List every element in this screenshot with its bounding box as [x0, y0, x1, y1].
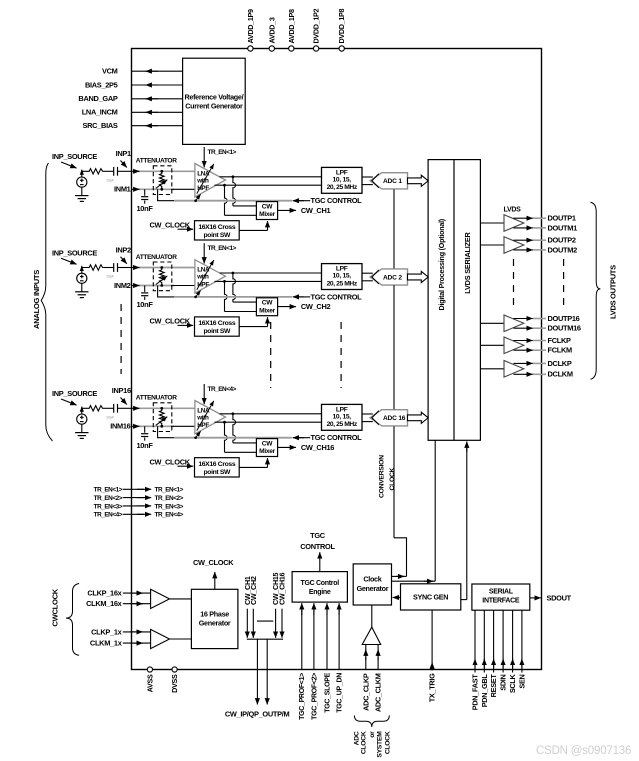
pin CLKM_16x: [86, 599, 150, 608]
svg-text:TR_EN<3>: TR_EN<3>: [94, 503, 123, 510]
svg-text:HPF: HPF: [197, 422, 209, 429]
svg-text:CLOCK: CLOCK: [384, 731, 391, 754]
svg-text:CLKM_16x: CLKM_16x: [86, 599, 123, 608]
svg-text:BIAS_2P5: BIAS_2P5: [85, 80, 118, 89]
svg-text:BAND_GAP: BAND_GAP: [78, 94, 117, 103]
wire BAND_GAP: [78, 94, 182, 103]
pin CLKP_1x: [91, 627, 150, 636]
svg-text:TR_EN<2>: TR_EN<2>: [94, 495, 123, 502]
wire TGC control ch1: [174, 194, 362, 205]
svg-text:LVDS: LVDS: [504, 207, 522, 214]
bus arrow ADC 16 to digital processing: [408, 412, 429, 423]
pin SDOUT: [530, 593, 572, 602]
brace LVDS OUTPUTS: [591, 202, 618, 379]
svg-text:TGC_PROF<2>: TGC_PROF<2>: [311, 673, 318, 720]
svg-text:LPF: LPF: [336, 169, 348, 176]
block 16 Phase Generator: [191, 589, 238, 648]
svg-text:INP_SOURCE: INP_SOURCE: [52, 389, 97, 398]
svg-text:CW_CLOCK: CW_CLOCK: [193, 558, 234, 567]
svg-text:10nF: 10nF: [137, 204, 154, 213]
wire cross point to mixer ch16: [239, 458, 267, 467]
svg-text:Clock: Clock: [363, 575, 381, 584]
block Digital Processing (Optional): [428, 160, 480, 441]
svg-text:Reference Voltage/: Reference Voltage/: [185, 93, 244, 102]
svg-text:SYNC GEN: SYNC GEN: [413, 593, 448, 602]
svg-text:CLOCK: CLOCK: [361, 731, 368, 754]
pin TGC_PROF<1>: [299, 603, 306, 720]
svg-text:AVDD_3: AVDD_3: [267, 17, 276, 43]
svg-text:CW_CH2: CW_CH2: [301, 302, 331, 311]
svg-text:DCLKM: DCLKM: [548, 370, 573, 379]
wire CW_IP/QP_OUTP/M outputs: [225, 639, 290, 718]
wire LPF to ADC 1: [362, 177, 373, 185]
resistor source ch16: [82, 406, 104, 411]
op-amp LNA ch2: [195, 260, 226, 293]
wire cross point to mixer ch2: [239, 317, 267, 326]
power pin AVDD_1P9: [246, 9, 255, 51]
pin SDIN: [499, 610, 508, 691]
ellipsis dash CW bus: [257, 620, 273, 622]
LVDS buffer DOUTP1/DOUTM1: [480, 214, 577, 233]
pin TR_EN<3>: [94, 503, 184, 510]
wire CW_CH1 output: [278, 206, 331, 215]
wire CW_CH2 output: [278, 302, 331, 311]
wire CW_CH16 to CW bus: [278, 572, 287, 637]
svg-text:INTERFACE: INTERFACE: [482, 598, 520, 605]
svg-text:CW_CH1: CW_CH1: [301, 206, 331, 215]
filter LPF ch1: [322, 167, 363, 193]
wire LNA outputs to LPF ch2: [215, 272, 322, 283]
svg-text:SCLK: SCLK: [508, 673, 517, 693]
mixer CW Mixer ch16: [256, 439, 277, 457]
svg-text:SYSTEM: SYSTEM: [377, 731, 384, 758]
wire TGC control ch16: [174, 431, 362, 442]
wire attenuator to TGC line ch2: [158, 286, 177, 297]
power pin DVDD_1P8: [337, 8, 346, 51]
svg-text:SDIN: SDIN: [499, 674, 508, 690]
svg-text:Digital Processing (Optional): Digital Processing (Optional): [438, 218, 446, 310]
op-amp LNA ch1: [195, 164, 226, 197]
svg-text:TR_EN<1>: TR_EN<1>: [155, 487, 184, 494]
svg-text:AVDD_1P9: AVDD_1P9: [246, 9, 255, 44]
svg-text:AVSS: AVSS: [145, 674, 154, 692]
bus arrow ADC 1 to digital processing: [408, 175, 429, 186]
pin TR_EN<1>: [94, 487, 184, 494]
ADC 16: [370, 410, 408, 426]
ellipsis dashed lines LVDS: [514, 259, 564, 308]
svg-text:16X16 Cross: 16X16 Cross: [198, 224, 236, 231]
svg-text:20, 25 MHz: 20, 25 MHz: [327, 184, 358, 191]
svg-text:DOUTP16: DOUTP16: [548, 314, 580, 323]
svg-text:HPF: HPF: [197, 281, 209, 288]
svg-text:10pF: 10pF: [106, 275, 115, 279]
svg-text:CW_CLOCK: CW_CLOCK: [150, 457, 191, 466]
wire LNA to CW mixer ch16: [225, 414, 257, 453]
wire attenuator to TGC line ch16: [158, 426, 177, 437]
svg-text:CONTROL: CONTROL: [300, 542, 335, 551]
wire sync gen to serializer: [461, 442, 467, 600]
current source ch1: [77, 170, 87, 196]
svg-text:INM16: INM16: [110, 422, 130, 431]
svg-text:TGC: TGC: [310, 531, 326, 540]
block 16X16 Cross point SW ch16: [195, 458, 240, 477]
svg-text:CWCLOCK: CWCLOCK: [50, 588, 59, 626]
svg-text:point SW: point SW: [203, 232, 231, 239]
wire INM16 to attenuator: [132, 425, 195, 427]
svg-text:TR_EN<1>: TR_EN<1>: [208, 245, 237, 252]
svg-text:Current Generator: Current Generator: [185, 102, 243, 111]
svg-text:10, 15,: 10, 15,: [333, 176, 352, 183]
pin CLKM_1x: [90, 639, 151, 648]
svg-text:RESET: RESET: [489, 674, 498, 698]
svg-text:DOUTM16: DOUTM16: [548, 324, 581, 333]
power pin AVDD_1P8: [287, 9, 296, 51]
pin INM1: [114, 185, 131, 194]
pin TR_EN<2>: [94, 495, 184, 502]
buffer CW clock 1x: [151, 629, 192, 648]
wire CW_CLOCK ch1: [150, 220, 194, 229]
capacitor 10nF ch16: [137, 426, 154, 450]
resistor source ch2: [82, 265, 104, 270]
svg-text:ATTENUATOR: ATTENUATOR: [136, 254, 177, 261]
node conversion clock label: [378, 455, 396, 498]
buffer ADC clock input: [362, 605, 381, 645]
ground pin AVSS: [145, 667, 154, 692]
pin TR_EN<4>: [94, 512, 184, 519]
wire cross point to mixer ch1: [239, 221, 267, 230]
buffer CW clock 16x: [151, 589, 192, 608]
svg-text:10nF: 10nF: [137, 300, 154, 309]
svg-text:INP_SOURCE: INP_SOURCE: [52, 152, 97, 161]
svg-text:INP16: INP16: [112, 386, 131, 395]
svg-text:16X16 Cross: 16X16 Cross: [198, 320, 236, 327]
svg-text:TR_EN<4>: TR_EN<4>: [155, 512, 184, 519]
wire CW_CH15 to CW bus: [271, 572, 280, 637]
svg-text:10nF: 10nF: [137, 441, 154, 450]
svg-text:ADC 1: ADC 1: [383, 178, 402, 185]
mixer CW Mixer ch1: [256, 202, 277, 220]
wire SRC_BIAS: [83, 121, 183, 130]
wire CW_CH1 to CW bus: [243, 576, 252, 638]
op-amp LNA ch16: [195, 401, 226, 434]
wire conversion clock riser: [394, 189, 407, 576]
svg-text:ATTENUATOR: ATTENUATOR: [136, 158, 177, 165]
LVDS buffer DOUTP2/DOUTM2: [480, 236, 577, 255]
svg-text:ADC 16: ADC 16: [383, 415, 406, 422]
block 16X16 Cross point SW ch2: [195, 317, 240, 336]
svg-text:INM2: INM2: [114, 281, 131, 290]
svg-text:DOUTP1: DOUTP1: [548, 214, 576, 223]
ADC 1: [370, 173, 408, 189]
pin INP16: [112, 386, 132, 408]
pin INM2: [114, 281, 131, 290]
wire INP1 to attenuator: [132, 170, 195, 172]
control input TR_EN<1> ch2: [204, 243, 236, 263]
wire LNA to CW mixer ch2: [225, 273, 257, 312]
svg-text:LVDS OUTPUTS: LVDS OUTPUTS: [608, 265, 617, 319]
svg-text:Engine: Engine: [309, 589, 331, 596]
svg-text:CSDN @s0907136: CSDN @s0907136: [536, 745, 631, 757]
pin TGC_SLOPE: [324, 603, 331, 713]
pin CLKP_16x: [87, 589, 150, 598]
wire LPF to ADC 16: [362, 414, 373, 422]
svg-text:TR_EN<1>: TR_EN<1>: [208, 149, 237, 156]
wire INP2 to attenuator: [132, 267, 195, 269]
svg-text:LPF: LPF: [336, 266, 348, 273]
bus arrow ADC 2 to digital processing: [408, 271, 429, 282]
filter LPF ch2: [322, 264, 363, 290]
wire CW_CLOCK ch16: [150, 457, 194, 466]
wire LPF to ADC 2: [362, 273, 373, 281]
ground ch2: [75, 292, 88, 298]
svg-text:PDN_GBL: PDN_GBL: [480, 674, 489, 708]
pin SCLK: [508, 610, 517, 693]
svg-text:TR_EN<4>: TR_EN<4>: [94, 512, 123, 519]
wire clock to digital processing: [392, 440, 436, 581]
pin RESET: [489, 610, 498, 697]
svg-text:Generator: Generator: [199, 619, 231, 628]
svg-text:SERIAL: SERIAL: [489, 589, 514, 596]
ellipsis dashed lines channels: [121, 304, 341, 388]
wire VCM: [102, 67, 183, 76]
svg-text:CW_CH16: CW_CH16: [278, 572, 287, 605]
svg-text:Generator: Generator: [357, 584, 389, 593]
attenuator ch16: [136, 395, 177, 432]
capacitor 0.1uF ch2: [104, 263, 118, 279]
pin PDN_FAST: [471, 610, 480, 710]
svg-text:CW_CLOCK: CW_CLOCK: [150, 220, 191, 229]
svg-text:SEN: SEN: [518, 674, 527, 688]
ground ch16: [75, 433, 88, 439]
pin TGC_PROF<2>: [311, 603, 318, 720]
source network INP_SOURCE ch1: [52, 152, 97, 168]
brace ANALOG INPUTS: [32, 163, 53, 441]
svg-text:10, 15,: 10, 15,: [333, 413, 352, 420]
svg-text:LVDS SERIALIZER: LVDS SERIALIZER: [463, 231, 472, 293]
svg-text:CLOCK: CLOCK: [389, 467, 396, 490]
block LVDS SERIALIZER: [463, 231, 472, 293]
svg-text:20, 25 MHz: 20, 25 MHz: [327, 421, 358, 428]
svg-text:CW_CH16: CW_CH16: [301, 443, 334, 452]
svg-text:SDOUT: SDOUT: [547, 593, 572, 602]
svg-text:TGC Control: TGC Control: [301, 580, 340, 587]
source network INP_SOURCE ch2: [52, 248, 97, 264]
svg-text:16 Phase: 16 Phase: [200, 610, 229, 619]
svg-text:ADC: ADC: [353, 731, 360, 745]
power pin AVDD_3: [267, 17, 276, 51]
svg-text:DOUTP2: DOUTP2: [548, 236, 576, 245]
svg-text:TGC CONTROL: TGC CONTROL: [311, 292, 363, 301]
svg-text:ANALOG INPUTS: ANALOG INPUTS: [32, 270, 41, 329]
svg-text:Mixer: Mixer: [259, 307, 275, 314]
svg-text:ADC 2: ADC 2: [383, 274, 402, 281]
label LVDS: [504, 207, 522, 214]
brace ADC CLOCK or SYSTEM CLOCK: [353, 715, 391, 757]
wire CW bus bar: [247, 638, 283, 640]
wire INP16 to attenuator: [132, 407, 195, 409]
svg-text:TGC CONTROL: TGC CONTROL: [311, 196, 363, 205]
brace CWCLOCK: [50, 584, 79, 656]
block TGC Control Engine: [292, 572, 347, 603]
svg-text:INP_SOURCE: INP_SOURCE: [52, 248, 97, 257]
wire LNA outputs to LPF ch16: [215, 412, 322, 423]
LVDS buffer FCLKP/FCLKM: [480, 336, 572, 355]
svg-text:DCLKP: DCLKP: [548, 359, 572, 368]
svg-text:CLKP_1x: CLKP_1x: [91, 627, 123, 636]
wire CW_CLOCK output: [193, 558, 234, 590]
svg-text:TGC_SLOPE: TGC_SLOPE: [324, 672, 331, 712]
svg-text:AVDD_1P8: AVDD_1P8: [287, 9, 296, 44]
svg-text:TR_EN<4>: TR_EN<4>: [208, 386, 237, 393]
wire LNA_INCM: [82, 108, 183, 117]
svg-text:Mixer: Mixer: [259, 448, 275, 455]
svg-text:DVDD_1P8: DVDD_1P8: [337, 8, 346, 43]
wire sync gen to clock generator: [393, 597, 401, 599]
svg-text:20, 25 MHz: 20, 25 MHz: [327, 280, 358, 287]
control input TR_EN<4> ch16: [204, 384, 236, 404]
ground ch1: [75, 196, 88, 202]
capacitor 0.1uF ch16: [104, 404, 118, 420]
block SYNC GEN: [401, 584, 461, 610]
control input TR_EN<1> ch1: [204, 147, 236, 167]
mixer CW Mixer ch2: [256, 298, 277, 316]
svg-text:CW_IP/QP_OUTP/M: CW_IP/QP_OUTP/M: [225, 710, 290, 719]
ground pin DVSS: [170, 667, 179, 693]
wire TGC CONTROL output: [300, 531, 335, 572]
capacitor 0.1uF ch1: [104, 167, 118, 183]
svg-text:CW: CW: [262, 203, 273, 210]
pin SEN: [518, 610, 527, 688]
ADC 2: [370, 269, 408, 285]
wire CW_CLOCK ch2: [150, 317, 194, 326]
svg-text:LNA_INCM: LNA_INCM: [82, 108, 118, 117]
svg-text:ATTENUATOR: ATTENUATOR: [136, 395, 177, 402]
wire clock to conversion riser: [392, 575, 407, 577]
svg-text:FCLKP: FCLKP: [548, 336, 572, 345]
current source ch2: [77, 266, 87, 292]
svg-text:TX_TRIG: TX_TRIG: [428, 673, 437, 702]
svg-text:CLKM_1x: CLKM_1x: [90, 639, 123, 648]
svg-text:VCM: VCM: [102, 67, 118, 76]
pin TX_TRIG: [428, 610, 437, 702]
pin INP2: [116, 245, 132, 267]
svg-text:TGC_PROF<1>: TGC_PROF<1>: [299, 673, 306, 720]
svg-text:LPF: LPF: [336, 406, 348, 413]
pin ADC_CLKM: [374, 645, 383, 713]
svg-text:CW_CH2: CW_CH2: [249, 576, 258, 605]
block Clock Generator: [353, 564, 391, 605]
svg-text:CW: CW: [262, 440, 273, 447]
chip boundary box: [132, 49, 542, 670]
pin INM16: [110, 422, 130, 431]
wire BIAS_2P5: [85, 80, 183, 89]
wire CW_CH16 output: [278, 443, 335, 452]
wire INM1 to attenuator: [132, 188, 195, 190]
pin PDN_GBL: [480, 610, 489, 707]
source network INP_SOURCE ch16: [52, 389, 97, 405]
wire TGC control ch2: [174, 291, 362, 302]
svg-text:or: or: [369, 731, 376, 738]
svg-text:INP2: INP2: [116, 245, 131, 254]
pin INP1: [116, 149, 132, 171]
svg-text:Mixer: Mixer: [259, 211, 275, 218]
svg-text:DOUTM2: DOUTM2: [548, 245, 578, 254]
svg-text:DVDD_1P2: DVDD_1P2: [312, 8, 321, 43]
power pin DVDD_1P2: [312, 8, 321, 51]
resistor source ch1: [82, 169, 104, 174]
wire CW_CH2 to CW bus: [249, 576, 258, 638]
svg-text:TR_EN<1>: TR_EN<1>: [94, 487, 123, 494]
svg-text:CW: CW: [262, 300, 273, 307]
svg-text:CONVERSION: CONVERSION: [378, 455, 385, 498]
attenuator ch1: [136, 158, 177, 195]
svg-text:ADC_CLKM: ADC_CLKM: [374, 673, 383, 712]
svg-text:point SW: point SW: [203, 328, 231, 335]
svg-text:10, 15,: 10, 15,: [333, 273, 352, 280]
svg-text:INM1: INM1: [114, 185, 131, 194]
svg-text:HPF: HPF: [197, 185, 209, 192]
svg-text:ADC_CLKP: ADC_CLKP: [361, 673, 370, 711]
block Reference Voltage/Current Generator: [183, 58, 246, 144]
attenuator ch2: [136, 254, 177, 291]
svg-text:10pF: 10pF: [106, 179, 115, 183]
pin ADC_CLKP: [361, 645, 370, 711]
svg-text:10pF: 10pF: [106, 416, 115, 420]
svg-text:FCLKM: FCLKM: [548, 346, 573, 355]
capacitor 10nF ch2: [137, 286, 154, 310]
svg-text:PDN_FAST: PDN_FAST: [471, 674, 480, 711]
svg-text:16X16 Cross: 16X16 Cross: [198, 461, 236, 468]
block 16X16 Cross point SW ch1: [195, 221, 240, 240]
svg-text:CLKP_16x: CLKP_16x: [87, 589, 122, 598]
wire INM2 to attenuator: [132, 285, 195, 287]
capacitor 10nF ch1: [137, 189, 154, 213]
svg-text:TGC_UP_DN: TGC_UP_DN: [337, 673, 344, 713]
LVDS buffer DCLKP/DCLKM: [480, 359, 572, 379]
svg-text:CW_CLOCK: CW_CLOCK: [150, 317, 191, 326]
pin TGC_UP_DN: [337, 603, 344, 713]
svg-text:TR_EN<3>: TR_EN<3>: [155, 503, 184, 510]
block SERIAL INTERFACE: [472, 584, 530, 610]
filter LPF ch16: [322, 404, 363, 430]
svg-text:TR_EN<2>: TR_EN<2>: [155, 495, 184, 502]
svg-text:point SW: point SW: [203, 469, 231, 476]
svg-text:SRC_BIAS: SRC_BIAS: [83, 121, 118, 130]
current source ch16: [77, 407, 87, 433]
wire LNA to CW mixer ch1: [225, 177, 257, 216]
svg-text:INP1: INP1: [116, 149, 131, 158]
svg-text:DOUTM1: DOUTM1: [548, 223, 578, 232]
watermark: [536, 745, 631, 757]
wire LNA outputs to LPF ch1: [215, 175, 322, 186]
svg-text:DVSS: DVSS: [170, 674, 179, 693]
LVDS buffer DOUTP16/DOUTM16: [480, 314, 581, 333]
svg-text:TGC CONTROL: TGC CONTROL: [311, 433, 363, 442]
wire attenuator to TGC line ch1: [158, 189, 177, 200]
